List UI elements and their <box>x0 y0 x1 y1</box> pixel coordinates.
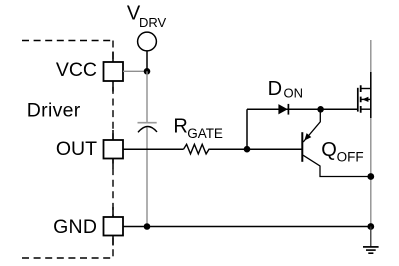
transistor Q_OFF base bar <box>301 132 303 162</box>
MOSFET body lead with arrow <box>361 98 371 100</box>
wire rail dot to ground symbol <box>370 227 372 247</box>
MOSFET gate bar <box>357 88 359 112</box>
diode D_ON <box>278 104 287 114</box>
wire node to capacitor (gray) <box>146 71 148 122</box>
pin stub GND top <box>112 207 114 217</box>
driver block dashed outline top <box>22 40 113 42</box>
node junction at gate net <box>244 146 251 153</box>
wire node up to diode branch <box>246 109 248 149</box>
pin stub OUT bottom <box>112 159 114 169</box>
svg-text:GATE: GATE <box>187 126 223 141</box>
node junction capacitor to GND <box>144 223 151 230</box>
capacitor CVDD bottom curved plate <box>138 126 157 132</box>
node junction collector to rail <box>367 173 374 180</box>
pin stub OUT top <box>112 130 114 140</box>
transistor Q_OFF collector lead <box>303 155 371 176</box>
wire resistor to Q base <box>210 148 302 150</box>
pin stub VCC bottom <box>112 81 114 92</box>
pin VCC box <box>104 62 124 81</box>
wire diode branch to MOSFET gate <box>247 108 358 110</box>
svg-text:GND: GND <box>53 216 97 238</box>
drain rail (gray) <box>370 40 372 247</box>
driver block dashed outline right <box>112 41 114 259</box>
pin stub GND bottom <box>112 236 114 246</box>
MOSFET channel segments <box>360 85 362 112</box>
wire VDRV circle to VCC node <box>146 51 148 72</box>
transistor Q_OFF emitter lead <box>303 109 320 142</box>
wire VCC pin to node (gray) <box>123 70 147 72</box>
driver block dashed outline bottom <box>22 257 113 259</box>
svg-text:DRV: DRV <box>139 15 167 30</box>
MOSFET drain lead <box>361 88 371 90</box>
svg-text:ON: ON <box>284 85 304 100</box>
svg-text:Q: Q <box>321 139 337 161</box>
wire GND rail <box>123 226 371 228</box>
svg-text:Driver: Driver <box>27 100 81 122</box>
wire OUT to resistor <box>123 148 184 150</box>
svg-text:OFF: OFF <box>337 149 364 164</box>
pin stub VCC top <box>112 52 114 63</box>
terminal circle VDRV <box>138 32 157 51</box>
svg-text:VCC: VCC <box>56 59 97 81</box>
resistor RGATE <box>184 144 211 154</box>
svg-text:R: R <box>173 116 187 138</box>
wire capacitor to GND rail (gray) <box>146 128 148 227</box>
MOSFET vertical black segment <box>370 72 372 118</box>
node junction GND to rail <box>367 223 374 230</box>
pin GND box <box>104 217 124 236</box>
ground symbol <box>363 246 379 248</box>
svg-text:OUT: OUT <box>56 138 97 160</box>
capacitor CVDD top plate <box>138 122 157 124</box>
svg-text:D: D <box>268 78 282 100</box>
pin OUT box <box>104 140 124 159</box>
MOSFET source lead <box>361 108 371 110</box>
node junction at VCC <box>144 68 151 75</box>
transistor Q_OFF emitter arrow <box>304 133 311 141</box>
node junction at emitter <box>317 106 324 113</box>
